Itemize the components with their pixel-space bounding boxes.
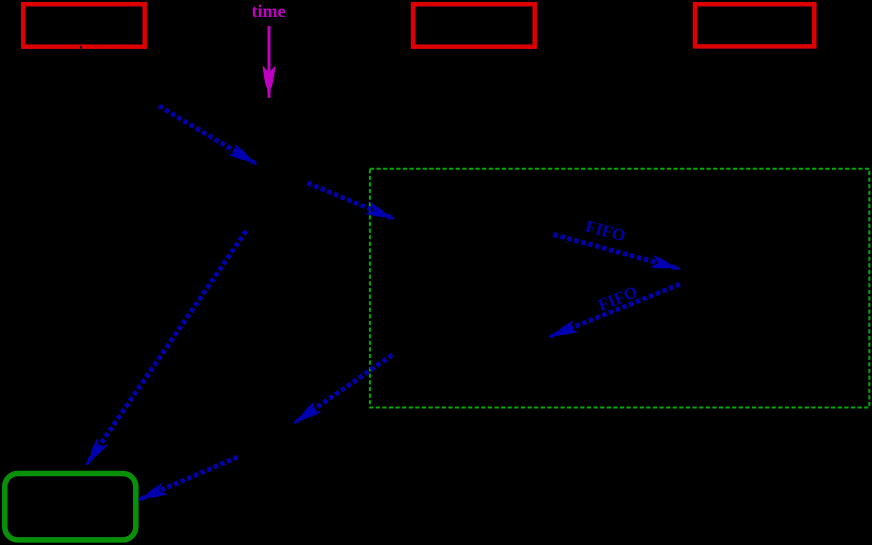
fifo arrow right [554,235,680,271]
msg arrow 1 [159,106,257,165]
process box 2 [413,4,535,47]
fifo arrow left [549,284,680,338]
long arrow to box [85,231,246,466]
timeline notch on box 1 [80,46,82,49]
time axis arrow [263,26,276,98]
svg-text:time: time [252,1,286,21]
audio output rounded box [5,474,136,540]
arrow mid to box [138,457,237,501]
machine boundary dashed box [370,169,869,408]
process box 1 [23,4,145,47]
msg arrow 2 [308,183,395,220]
process box 3 [695,4,814,46]
arrow from green box [293,355,392,424]
